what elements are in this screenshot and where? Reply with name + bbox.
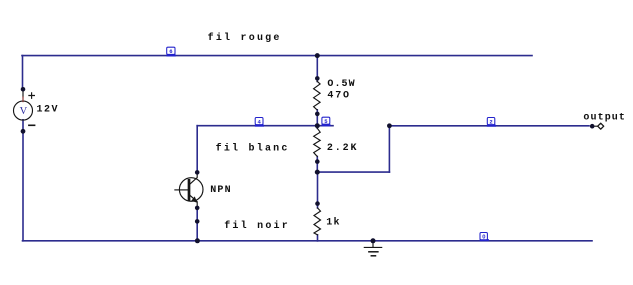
svg-text:V: V — [20, 106, 28, 117]
svg-text:fil blanc: fil blanc — [216, 143, 288, 155]
svg-text:output: output — [583, 113, 625, 124]
svg-text:2.2K: 2.2K — [327, 143, 357, 154]
svg-text:47O: 47O — [327, 91, 349, 102]
svg-text:NPN: NPN — [210, 185, 230, 196]
svg-text:0: 0 — [482, 235, 485, 241]
svg-text:fil rouge: fil rouge — [208, 32, 280, 44]
svg-text:1k: 1k — [326, 216, 339, 228]
svg-text:12V: 12V — [37, 105, 58, 116]
svg-text:O.5W: O.5W — [327, 79, 354, 90]
